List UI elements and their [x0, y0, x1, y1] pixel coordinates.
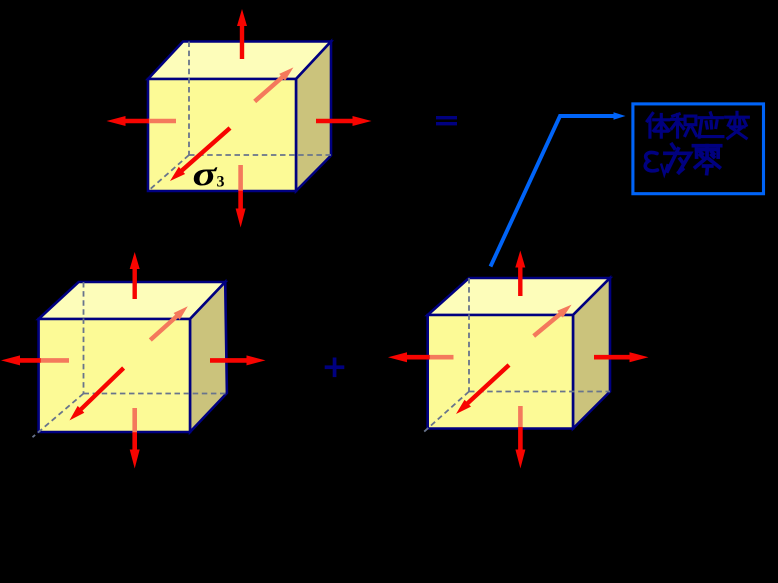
- leader line horizontal segment: [559, 114, 617, 118]
- cube 2 (bottom-left stress element): bottom stress arrow tail on face (light red): [132, 408, 137, 433]
- callout box border: [633, 104, 764, 194]
- cube 1 (top-left stress element): bottom stress arrow tail on face (light red): [238, 165, 243, 191]
- cube 3 (bottom-right stress element): bottom stress arrow tail on face (light red): [518, 406, 523, 428]
- cube 1 (top-left stress element): hidden left bottom edge (dashed): [148, 155, 189, 191]
- callout text char "ji" (product/accumulate): [672, 114, 697, 137]
- cube 2 (bottom-left stress element): hidden left bottom edge (dashed): [33, 394, 84, 438]
- cube 3 (bottom-right stress element): left normal stress arrow (red, left): [388, 352, 430, 362]
- svg-text:3: 3: [217, 174, 225, 191]
- leader line slanted segment: [491, 116, 561, 267]
- cube 3 (bottom-right stress element): right normal stress arrow (red, right): [594, 352, 649, 362]
- cube 1 (top-left stress element): hidden back vertical edge (dashed): [188, 42, 190, 156]
- cube 3 (bottom-right stress element): hidden back vertical edge (dashed): [468, 278, 470, 392]
- cube 3 (bottom-right stress element): hidden back bottom edge (dashed): [469, 391, 610, 393]
- cube 3 (bottom-right stress element): inner diagonal stress arrow (light red, pointing up-right): [532, 305, 571, 338]
- cube 1 (top-left stress element): hidden back bottom edge (dashed): [189, 154, 331, 156]
- plus sign: [325, 365, 345, 369]
- cube 3 (bottom-right stress element): front face: [428, 315, 573, 429]
- callout text char "ti" (body): [647, 113, 669, 137]
- cube 2 (bottom-left stress element): top normal stress arrow (red, up): [130, 252, 140, 299]
- cube 3 (bottom-right stress element): hidden left bottom edge (dashed): [422, 392, 469, 434]
- cube 1 (top-left stress element): right side face: [296, 42, 331, 192]
- cube 2 (bottom-left stress element): hidden back bottom edge (dashed): [84, 393, 227, 395]
- cube 3 (bottom-right stress element): right side face: [573, 278, 610, 429]
- callout text char "bian" (change): [726, 112, 749, 138]
- cube 3 (bottom-right stress element): inner diagonal stress arrow (red, pointing down-left): [456, 363, 511, 414]
- equals sign: [436, 116, 457, 119]
- cube 2 (bottom-left stress element): right normal stress arrow (red, right): [210, 355, 266, 365]
- cube 2 (bottom-left stress element): right side face: [190, 282, 227, 432]
- cube 1 (top-left stress element): bottom normal stress arrow (red, down): [236, 191, 246, 228]
- callout text char "ying" (strain/respond): [699, 113, 723, 137]
- cube 1 (top-left stress element): right normal stress arrow (red, right): [316, 116, 372, 126]
- leader line arrowhead: [613, 112, 626, 120]
- cube 3 (bottom-right stress element): top normal stress arrow (red, up): [515, 251, 525, 297]
- cube 3 (bottom-right stress element): left stress arrow tail on face (light red): [429, 355, 454, 360]
- cube 2 (bottom-left stress element): left normal stress arrow (red, left): [1, 355, 41, 365]
- cube 1 (top-left stress element): left stress arrow tail on face (light red): [148, 119, 176, 124]
- svg-text:σ: σ: [193, 155, 219, 193]
- cube 2 (bottom-left stress element): inner diagonal stress arrow (red, pointing down-left): [70, 366, 126, 420]
- callout text char "wei" (is/for): [665, 144, 690, 172]
- sigma_3 principal stress label: [193, 155, 219, 193]
- callout text char "ling" (zero): [693, 146, 720, 174]
- cube 1 (top-left stress element): inner diagonal stress arrow (light red, pointing up-right): [253, 67, 293, 103]
- cube 2 (bottom-left stress element): top face: [39, 282, 226, 319]
- cube 1 (top-left stress element): front face: [148, 79, 296, 191]
- cube 1 (top-left stress element): left normal stress arrow (red, left): [107, 116, 150, 126]
- cube 1 (top-left stress element): top normal stress arrow (red, up): [237, 9, 247, 59]
- cube 2 (bottom-left stress element): front face: [39, 319, 190, 432]
- cube 3 (bottom-right stress element): bottom normal stress arrow (red, down): [515, 427, 525, 469]
- callout text epsilon symbol: [645, 153, 657, 171]
- cube 3 (bottom-right stress element): top face: [428, 278, 610, 315]
- cube 2 (bottom-left stress element): hidden back vertical edge (dashed): [83, 282, 85, 394]
- cube 2 (bottom-left stress element): inner diagonal stress arrow (light red, pointing up-right): [149, 306, 188, 341]
- cube 1 (top-left stress element): inner diagonal stress arrow (red, pointing down-left): [170, 126, 232, 181]
- cube 2 (bottom-left stress element): left stress arrow tail on face (light red): [40, 358, 69, 363]
- callout text subscript v: [661, 164, 668, 175]
- cube 2 (bottom-left stress element): bottom normal stress arrow (red, down): [130, 432, 140, 468]
- cube 1 (top-left stress element): top face: [148, 42, 331, 80]
